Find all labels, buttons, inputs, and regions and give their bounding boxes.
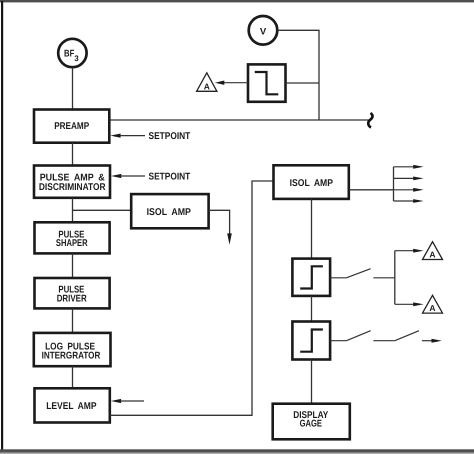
svg-text:SETPOINT: SETPOINT [149,131,191,142]
setpoint arrow into PULSE AMP [111,174,145,178]
svg-text:A: A [429,303,435,313]
arrow from trigger U1 to alarm A1 [215,81,248,85]
svg-text:A: A [429,250,435,260]
fan arrow 2 [394,177,424,181]
branch bus vertical [394,251,396,305]
isol amp 1 box [131,194,208,228]
voltmeter V [249,16,278,45]
wire: trigger U1 output to bus [286,82,320,84]
svg-text:DRIVER: DRIVER [57,293,87,304]
frame bottom border [0,449,474,452]
isol amp 2 box [274,165,349,199]
svg-text:SHAPER: SHAPER [56,238,88,249]
frame left border [1,1,3,451]
arrow to alarm A2 [395,249,424,253]
wire: PREAMP output to break [110,119,370,121]
svg-text:INTERGRATOR: INTERGRATOR [42,350,101,361]
alarm triangle A3 [423,295,443,313]
svg-text:GAGE: GAGE [300,419,323,430]
wire: between switches [373,340,394,342]
alarm triangle A2 [423,242,443,260]
frame top border [0,0,474,2]
svg-text:ISOL AMP: ISOL AMP [147,207,192,218]
svg-text:V: V [260,26,267,37]
wire: PREAMP to PULSE AMP [72,143,74,166]
wire: trigger U3 to DISPLAY GAGE [311,360,313,405]
fan bus vertical [393,167,395,201]
trigger U3 (rising step) box [292,322,330,360]
wire: LEVEL AMP output up to ISOL AMP 2 [110,181,274,415]
pulse shaper box [35,222,110,253]
level amp box [35,388,110,422]
wire: trigger U3 output [330,340,346,342]
setpoint arrow into PREAMP [110,134,145,138]
trigger U2 (rising step) box [292,259,330,296]
output arrow after switches [422,339,442,343]
fan arrow 4 [394,199,424,203]
switch S3 [395,331,419,341]
svg-text:BF: BF [64,49,74,60]
detector BF3 [58,39,86,67]
wire: PULSE SHAPER to PULSE DRIVER [72,253,74,278]
switch S2 [346,331,370,341]
pulse driver box [35,278,110,308]
wire: BF3 to PREAMP [72,68,74,111]
trigger U1 (falling step) box [248,64,286,101]
wire: PULSE DRIVER to LOG PULSE INTERGRATOR [72,308,74,333]
setpoint arrow into LEVEL AMP [111,399,144,403]
svg-text:DISCRIMINATOR: DISCRIMINATOR [39,182,106,193]
wire: ISOL AMP 2 to trigger U2 [311,199,313,259]
break squiggle at end of preamp output wire [368,113,372,128]
log pulse intergrator box [34,333,111,366]
wire: PULSE AMP to PULSE SHAPER [72,198,74,222]
arrowhead down (isol amp 1 output) [227,233,232,244]
wire: ISOL AMP 1 output to down arrow [209,210,230,236]
svg-text:SETPOINT: SETPOINT [149,172,191,183]
wire: trigger U2 output [330,277,346,279]
display gage box [273,404,350,440]
wire: LOG PULSE INTERGRATOR to LEVEL AMP [72,366,74,388]
pulse amp and discriminator box [34,166,110,198]
preamp box [34,110,109,143]
fan arrow 3 [394,188,424,192]
svg-text:A: A [204,81,210,91]
alarm triangle A1 [197,73,217,92]
wire: ISOL AMP 2 output to fan [349,189,394,191]
svg-text:3: 3 [74,54,79,63]
svg-text:ISOL AMP: ISOL AMP [290,178,334,189]
svg-text:PREAMP: PREAMP [54,121,89,132]
switch S1 [346,269,370,278]
svg-text:LEVEL AMP: LEVEL AMP [46,401,97,412]
arrow to alarm A3 [395,302,424,306]
wire: trigger U2 to trigger U3 [311,296,313,322]
wire: voltmeter to bus [277,30,319,120]
wire: switch S1 to branch bus [373,277,394,279]
wire: branch to ISOL AMP 1 [73,209,132,211]
fan arrow 1 [394,165,424,169]
